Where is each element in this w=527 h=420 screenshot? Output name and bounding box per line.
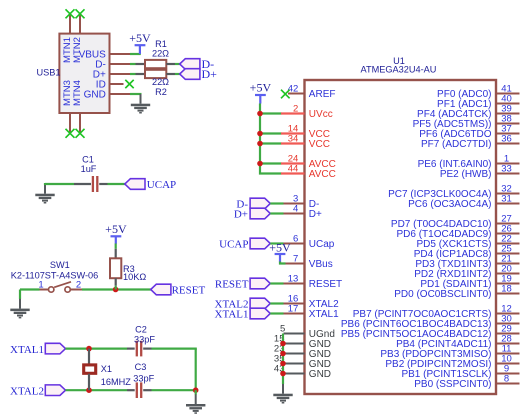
junction crystal rail (193, 387, 199, 393)
U1 pin 39 PF4 (417, 104, 519, 121)
+5V power symbol at IC rail (250, 81, 272, 104)
wire +5V to pin 7 (280, 262, 286, 264)
capacitor C3 lead left (127, 389, 135, 391)
wire SW1 pin 2 to RESET label (82, 288, 151, 290)
wire ground to C1 (45, 183, 74, 185)
svg-text:PB0 (SSPCINT0): PB0 (SSPCINT0) (414, 379, 491, 390)
svg-text:C2: C2 (135, 324, 147, 334)
U1 pin 31 PC6 (408, 194, 519, 211)
svg-text:GND: GND (84, 90, 106, 101)
+5V power symbol at R3 (105, 222, 127, 244)
svg-text:K2-1107ST-A4SW-06: K2-1107ST-A4SW-06 (11, 271, 99, 281)
capacitor C1 lead right (99, 183, 107, 185)
svg-text:34: 34 (288, 134, 299, 145)
svg-text:XTAL2: XTAL2 (10, 385, 44, 397)
U1 pin 38 PF5 (413, 114, 520, 131)
svg-text:PD0 (OC0BSCLINT0): PD0 (OC0BSCLINT0) (394, 289, 491, 300)
USB1 pin D+ (110, 73, 131, 75)
crystal X1 lead bottom (88, 374, 90, 390)
junction GND pin 23 (280, 351, 286, 357)
svg-text:MTN4: MTN4 (72, 80, 83, 106)
U1 pin 14 VCC (281, 124, 330, 141)
connector USB1 body (59, 34, 109, 113)
ground symbol below U1 (273, 384, 292, 404)
junction on rail at UVcc (257, 111, 263, 117)
USB1 pin MTN2 (top) (79, 14, 81, 34)
+5V power symbol at VBus pin 7 (269, 240, 291, 262)
USB1 pin MTN4 (bottom) (79, 113, 81, 133)
svg-text:AREF: AREF (309, 89, 336, 100)
wire label XTAL2 to pin 16 (270, 302, 283, 304)
svg-text:D+: D+ (202, 67, 218, 81)
svg-text:ATMEGA32U4-AU: ATMEGA32U4-AU (361, 65, 437, 75)
wire D+ pin to R2 (130, 73, 136, 75)
U1 pin 33 PE2 (440, 164, 520, 181)
svg-text:+5V: +5V (105, 222, 127, 236)
hierarchical label D- (IC side) (236, 198, 270, 210)
USB1 pin MTN1 (top) (69, 14, 71, 34)
svg-text:1: 1 (38, 280, 43, 291)
U1 pin 4 D+ (284, 204, 323, 221)
svg-text:2: 2 (293, 104, 298, 115)
svg-text:USB1: USB1 (37, 68, 61, 78)
+5V power symbol at USB (129, 31, 151, 54)
U1 pin 10 PB2 (385, 354, 519, 371)
no-connect X on MTN4 (76, 129, 85, 138)
ground symbol at C1 (35, 184, 54, 204)
svg-text:+5V: +5V (129, 31, 151, 45)
wire junction to ground (195, 390, 197, 394)
U1 pin 18 PD0 (394, 284, 519, 301)
svg-text:RESET: RESET (309, 279, 342, 290)
junction XTAL1 at X1 (86, 346, 92, 352)
wire label D- to pin 3 (270, 202, 283, 204)
capacitor C2 lead right (143, 348, 151, 350)
U1 pin 7 VBus (284, 254, 333, 271)
svg-text:UCAP: UCAP (147, 179, 176, 191)
resistor R1 lead left (136, 63, 146, 65)
U1 pin 37 PF6 (419, 124, 519, 141)
junction GND pin 43 (280, 371, 286, 377)
U1 pin 5 UGnd (280, 324, 335, 340)
svg-text:UVcc: UVcc (309, 109, 333, 120)
resistor R2 lead left (136, 73, 146, 75)
U1 pin 32 PC7 (388, 184, 519, 201)
svg-text:4: 4 (293, 204, 298, 215)
no-connect X on MTN3 (66, 129, 75, 138)
svg-text:33pF: 33pF (134, 335, 155, 345)
svg-text:1uF: 1uF (81, 164, 97, 174)
svg-text:10KΩ: 10KΩ (123, 272, 146, 282)
svg-text:X1: X1 (101, 364, 112, 374)
svg-text:R2: R2 (155, 87, 167, 97)
svg-text:VCC: VCC (309, 139, 330, 150)
U1 pin 22 PD5 (416, 234, 519, 251)
junction on rail at AVCC 24 (257, 161, 263, 167)
wire XTAL2 label to C3 (66, 389, 128, 391)
capacitor C2 (137, 341, 141, 357)
svg-text:XTAL1: XTAL1 (309, 309, 339, 320)
crystal X1 lead top (88, 349, 90, 365)
capacitor C3 (137, 382, 141, 398)
U1 pin 41 PF0 (437, 84, 519, 101)
junction XTAL2 at X1 (86, 387, 92, 393)
resistor R3 (110, 258, 121, 278)
wire C3 to right rail (152, 389, 197, 391)
svg-text:42: 42 (288, 84, 299, 95)
U1 pin 20 PD2 (414, 264, 519, 281)
U1 pin 2 UVcc (281, 104, 333, 121)
wire label D+ to pin 4 (270, 212, 283, 214)
wire +5V to R3 (115, 244, 117, 249)
svg-text:22Ω: 22Ω (152, 48, 169, 58)
wire +5V rail vertical (260, 104, 282, 174)
no-connect X on MTN2 (76, 9, 85, 18)
svg-text:36: 36 (501, 134, 512, 145)
wire ground to SW1 pin 1 (20, 288, 40, 290)
no-connect X on AREF pin 42 (281, 90, 290, 99)
junction GND pin 15 (280, 341, 286, 347)
U1 pin 34 VCC (281, 134, 330, 151)
resistor R3 lead bottom (115, 278, 117, 286)
svg-text:+5V: +5V (250, 81, 272, 95)
U1 pin 40 PF1 (437, 94, 519, 111)
capacitor C2 lead left (127, 348, 135, 350)
wire GND rail vertical (282, 334, 284, 385)
U1 pin 16 XTAL2 (284, 294, 340, 311)
U1 pin 8 PB0 (414, 374, 519, 391)
U1 pin 23 GND (274, 344, 331, 360)
wire R2 to label D+ (175, 73, 180, 75)
wire rail to VCC pin 34 (260, 142, 282, 144)
svg-text:XTAL1: XTAL1 (10, 344, 44, 356)
svg-text:PF7 (ADC7TDI): PF7 (ADC7TDI) (421, 139, 492, 150)
svg-text:31: 31 (501, 194, 512, 205)
hierarchical label D- (USB side) (180, 57, 214, 71)
wire XTAL1 label to C2 (66, 348, 128, 350)
resistor R1 (145, 60, 166, 68)
junction GND pin 35 (280, 361, 286, 367)
wire D- pin to R1 (130, 63, 136, 65)
U1 pin 17 XTAL1 (284, 304, 340, 321)
svg-text:UCap: UCap (309, 239, 335, 250)
U1 pin 3 D- (284, 194, 320, 211)
svg-text:RESET: RESET (172, 285, 206, 297)
hierarchical label D+ (USB side) (180, 67, 217, 81)
USB1 pin MTN3 (bottom) (69, 113, 71, 133)
svg-text:AVCC: AVCC (309, 169, 336, 180)
svg-text:18: 18 (501, 284, 512, 295)
svg-text:RESET: RESET (215, 279, 249, 291)
hierarchical label XTAL2 (crystal) (10, 385, 65, 397)
svg-text:8: 8 (504, 374, 509, 385)
svg-text:17: 17 (288, 304, 299, 315)
crystal X1 (84, 365, 96, 373)
svg-text:SW1: SW1 (50, 260, 70, 270)
U1 pin 27 PD7 (391, 214, 520, 231)
USB1 pin ID (110, 83, 124, 85)
wire GND pin to ground (130, 93, 142, 95)
USB1 pin D- (110, 63, 131, 65)
resistor R2 lead right (166, 73, 175, 75)
U1 pin 12 PB7 (353, 304, 520, 321)
svg-text:33pF: 33pF (133, 373, 154, 383)
svg-text:D+: D+ (309, 209, 322, 220)
wire label XTAL1 to pin 17 (270, 312, 283, 314)
wire C1 to label UCAP (108, 183, 126, 185)
U1 pin 24 AVCC (281, 154, 336, 171)
U1 pin 11 PB3 (380, 344, 519, 361)
U1 pin 6 UCap (284, 234, 335, 251)
svg-text:16MHZ: 16MHZ (101, 377, 132, 387)
capacitor C1 lead left (74, 183, 91, 185)
switch SW1 (40, 282, 83, 292)
hierarchical label UCAP (IC side) (219, 238, 270, 250)
U1 pin 44 AVCC (281, 164, 336, 181)
U1 pin 30 PB6 (341, 314, 520, 331)
capacitor C3 lead right (143, 389, 151, 391)
U1 pin 36 PF7 (421, 134, 520, 151)
U1 pin 29 PB5 (341, 324, 520, 341)
junction on rail at VCC 14 (257, 131, 263, 137)
U1 pin 19 PD1 (420, 274, 519, 291)
wire crystal right rail vertical (195, 349, 197, 391)
svg-text:C3: C3 (135, 362, 147, 372)
hierarchical label UCAP (at C1) (125, 179, 176, 191)
resistor R3 lead top (115, 249, 117, 258)
U1 pin 43 GND (274, 364, 331, 380)
svg-text:6: 6 (293, 234, 298, 245)
svg-text:44: 44 (288, 164, 299, 175)
wire rail to UVcc pin 2 (260, 112, 282, 114)
ground symbol at USB GND (131, 94, 150, 114)
hierarchical label XTAL1 (crystal) (10, 343, 65, 356)
wire R1 to label D- (175, 63, 180, 65)
hierarchical label XTAL1 (IC side) (215, 308, 271, 320)
svg-text:7: 7 (293, 254, 298, 265)
resistor R1 lead right (166, 63, 175, 65)
svg-text:D+: D+ (234, 209, 248, 221)
no-connect X on ID (125, 80, 133, 88)
wire rail to VCC pin 14 (260, 132, 282, 134)
svg-text:13: 13 (288, 274, 299, 285)
capacitor C1 (93, 176, 97, 192)
resistor R2 (145, 70, 166, 78)
svg-text:33: 33 (501, 164, 512, 175)
wire rail to AVCC pin 24 (260, 162, 282, 164)
no-connect X on MTN1 (66, 9, 75, 18)
svg-text:VBus: VBus (309, 259, 333, 270)
U1 pin 28 PB4 (396, 334, 519, 351)
hierarchical label D+ (IC side) (234, 208, 270, 220)
U1 pin 26 PD6 (396, 224, 519, 241)
wire label RESET to pin 13 (270, 282, 283, 284)
wire R3 to RESET net (115, 286, 117, 290)
USB1 pin VBUS (110, 53, 131, 55)
hierarchical label XTAL2 (IC side) (215, 298, 271, 310)
U1 pin 35 GND (274, 354, 331, 370)
wire label UCAP to pin 6 (270, 242, 283, 244)
U1 pin 13 RESET (284, 274, 343, 291)
U1 pin 1 PE6 (418, 154, 520, 171)
ground symbol at crystal (186, 394, 205, 414)
U1 pin 9 PB1 (401, 364, 519, 381)
junction on rail at VCC 34 (257, 141, 263, 147)
svg-text:+5V: +5V (269, 240, 291, 254)
svg-text:XTAL1: XTAL1 (215, 309, 249, 321)
U1 pin 42 AREF (288, 84, 336, 101)
svg-text:2: 2 (76, 280, 81, 291)
svg-text:PE2 (HWB): PE2 (HWB) (440, 169, 492, 180)
hierarchical label RESET (at SW1) (151, 284, 206, 296)
svg-text:PC6 (OC3AOC4A): PC6 (OC3AOC4A) (408, 199, 491, 210)
ground symbol at SW1 (10, 290, 29, 319)
USB1 pin GND (110, 93, 131, 95)
U1 pin 21 PD3 (415, 254, 519, 271)
U1 pin 25 PD4 (414, 244, 520, 261)
wire VBUS pin to +5V (130, 53, 141, 55)
svg-text:GND: GND (309, 369, 331, 380)
wire C2 to right rail (152, 348, 197, 350)
hierarchical label RESET (IC side) (215, 278, 270, 290)
svg-text:22Ω: 22Ω (152, 77, 169, 87)
svg-text:UCAP: UCAP (219, 239, 248, 251)
junction RESET net at R3 (113, 287, 119, 293)
IC U1 body (305, 80, 497, 394)
U1 pin 15 GND (274, 334, 331, 350)
